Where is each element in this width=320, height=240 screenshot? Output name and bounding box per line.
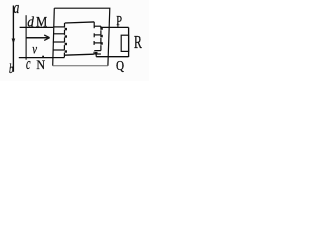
svg-text:P: P (116, 13, 122, 29)
resistor R body (121, 35, 128, 51)
terminal P tick (117, 23, 119, 28)
svg-text:d: d (27, 14, 34, 31)
wire bottom from winding N to Q and R (95, 53, 97, 56)
primary winding M (left leg square loops) (53, 23, 65, 58)
winding N loop-junction dots (95, 27, 103, 54)
svg-text:M: M (36, 15, 47, 31)
wire down to resistor (128, 27, 130, 57)
svg-text:v: v (32, 41, 37, 57)
winding M loop-junction dots (65, 28, 67, 53)
secondary winding N (right leg square loops) (94, 22, 101, 54)
svg-text:Q: Q (116, 58, 124, 73)
winding N left-side segments on inner-box right edge (93, 22, 95, 28)
junction dot near N (42, 56, 44, 58)
transformer core inner rectangle (65, 22, 95, 23)
winding N right-side segments (100, 26, 102, 28)
wire bottom rail c to winding M (19, 57, 53, 59)
svg-text:c: c (26, 55, 31, 73)
current arrowhead on wire ab (12, 39, 16, 45)
svg-text:b: b (9, 61, 14, 76)
node d / c branch (vertical line through d and c) (25, 15, 27, 60)
winding M right-side segments on inner-box left edge (64, 23, 66, 28)
velocity arrow v (26, 35, 49, 40)
transformer core outer rectangle (54, 8, 110, 65)
svg-text:R: R (134, 34, 142, 53)
wire secondary top to P and R (101, 26, 129, 28)
svg-text:N: N (36, 58, 45, 72)
svg-text:a: a (13, 0, 19, 18)
wire ab (left vertical conductor) (12, 6, 14, 72)
wire top rail d to winding M (20, 26, 54, 28)
